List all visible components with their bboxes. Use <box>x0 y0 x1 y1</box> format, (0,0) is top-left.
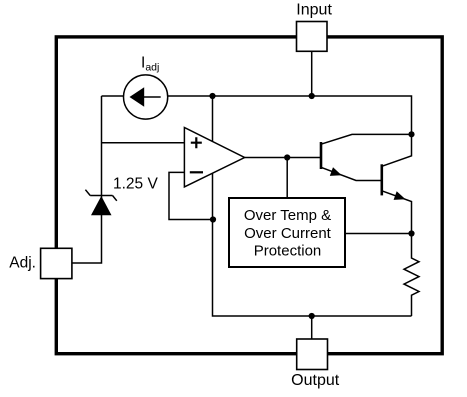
svg-text:Protection: Protection <box>254 242 322 259</box>
svg-text:Input: Input <box>296 2 332 19</box>
svg-text:Over Current: Over Current <box>244 225 332 242</box>
svg-text:Over Temp &: Over Temp & <box>244 207 331 224</box>
svg-text:1.25 V: 1.25 V <box>113 176 158 193</box>
svg-text:Output: Output <box>291 372 340 389</box>
svg-text:Adj.: Adj. <box>9 255 36 272</box>
